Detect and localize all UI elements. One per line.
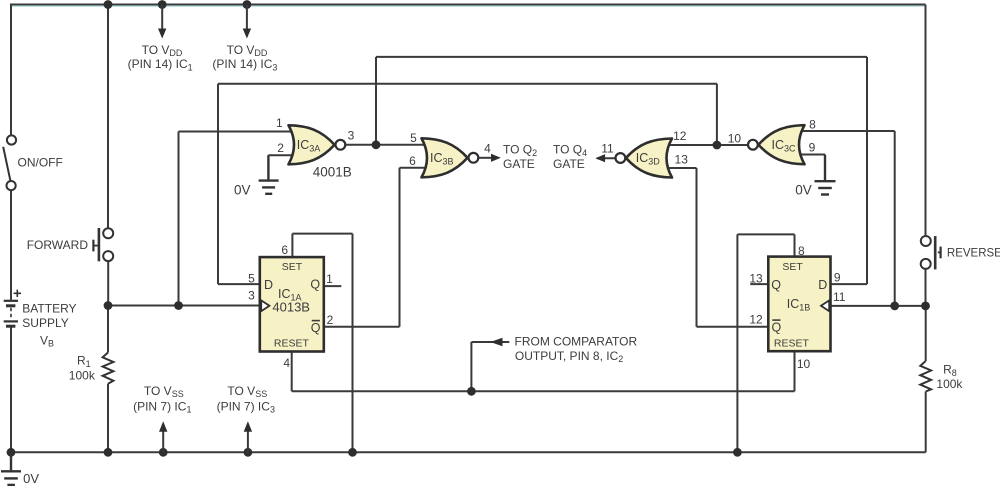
wire top rail cyan accent (11, 5, 925, 7)
junction top rail at VDD arrow 2 (243, 0, 252, 9)
svg-text:10: 10 (797, 357, 811, 371)
svg-text:4: 4 (283, 356, 290, 370)
svg-text:10: 10 (728, 131, 742, 145)
svg-text:GATE: GATE (553, 157, 585, 171)
wire IC3A output to IC3B pin 5 (346, 144, 430, 146)
svg-text:0V: 0V (23, 471, 39, 486)
junction 0V rail at VSS arrow 2 (244, 448, 253, 457)
wire IC1A SET horizontal (292, 233, 352, 235)
junction 0V rail at IC1B SET return (733, 448, 742, 457)
arrow TO VDD IC1 (158, 5, 166, 39)
wire node 10 to IC3C output (717, 144, 748, 146)
wire IC1B SET horizontal (737, 233, 794, 235)
wire IC1A SET down to 0V rail (352, 234, 354, 453)
svg-text:Q: Q (772, 321, 782, 335)
svg-text:4013B: 4013B (272, 299, 310, 314)
svg-text:GATE: GATE (503, 157, 535, 171)
wire comparator line (292, 390, 795, 392)
wire IC1A pin 5 (D) (218, 283, 260, 285)
svg-text:9: 9 (809, 141, 816, 155)
svg-text:RESET: RESET (774, 337, 810, 349)
NOR gate IC3B (422, 138, 479, 177)
NOR gate IC3C (mirrored) (748, 125, 805, 164)
flip-flop U IC1A (260, 257, 324, 351)
svg-text:13: 13 (749, 271, 763, 285)
wire node down to IC3D pin 12 (716, 84, 718, 145)
svg-text:5: 5 (248, 271, 255, 285)
svg-text:6: 6 (281, 243, 288, 257)
wire IC3C pin 8 input (798, 130, 895, 132)
resistor R8 (920, 361, 931, 392)
junction clock node at R1 (104, 301, 113, 310)
junction top rail at supply branch (104, 0, 113, 9)
clock triangle IC1A pin 3 (261, 300, 269, 311)
wire node to R8 top (925, 306, 927, 361)
arrow TO Q4 GATE (595, 154, 605, 162)
svg-text:ON/OFF: ON/OFF (18, 156, 63, 170)
ground bottom left 0V (1, 452, 21, 485)
wire IC1B RESET pin 10 vertical (794, 351, 796, 391)
svg-text:D: D (818, 278, 827, 292)
wire vertical down to IC1B pin 9 (866, 57, 868, 284)
wire IC3B pin 6 input (400, 167, 430, 169)
wire bottom 0V rail (7, 451, 926, 453)
svg-text:3: 3 (348, 129, 355, 143)
wire R1 bottom to 0V rail (107, 384, 109, 453)
junction IC1B clock at R8 (921, 302, 930, 311)
svg-text:3: 3 (248, 289, 255, 303)
wire vertical down to IC1A pin 5 (217, 84, 219, 284)
arrow TO VSS IC1 (159, 421, 167, 452)
svg-text:Q: Q (311, 321, 321, 335)
wire IC1A pin 1 Q stub (324, 285, 342, 287)
wire IC1B pin 12 Qbar (697, 326, 769, 328)
node 3 IC3A output (372, 140, 381, 149)
svg-text:Q: Q (310, 278, 320, 292)
arrow TO Q2 GATE (491, 154, 501, 162)
svg-text:9: 9 (834, 271, 841, 285)
wire comparator arrow vertical (470, 342, 472, 391)
svg-text:13: 13 (675, 153, 689, 167)
svg-text:TO Q2: TO Q2 (503, 143, 537, 158)
svg-text:(PIN 14) IC3: (PIN 14) IC3 (212, 57, 277, 72)
wire IC1B pin 9 (D) (831, 283, 868, 285)
wire D feedback horizontal (218, 83, 717, 85)
wire IC3D output pin 11 (597, 157, 615, 159)
junction top rail at VDD arrow 1 (158, 0, 167, 9)
wire IC1B clock pin 11 line (831, 305, 926, 307)
wire left rail top (10, 5, 12, 136)
svg-text:SET: SET (782, 261, 803, 273)
svg-text:Q: Q (771, 278, 781, 292)
svg-text:12: 12 (673, 129, 687, 143)
svg-text:0V: 0V (795, 183, 812, 198)
svg-text:FORWARD: FORWARD (27, 238, 89, 252)
svg-text:11: 11 (833, 290, 846, 304)
svg-text:0V: 0V (234, 182, 251, 197)
wire IC3D pin 13 vertical to IC1B Qbar (696, 168, 698, 327)
wire IC3B pin 6 vertical to IC1A Qbar (399, 168, 401, 327)
svg-text:8: 8 (798, 244, 805, 258)
wire supply branch from top rail to FORWARD (107, 5, 109, 229)
wire IC1A SET pin 6 vertical (291, 234, 293, 258)
svg-text:12: 12 (749, 312, 763, 326)
wire IC1A RESET pin 4 vertical (291, 352, 293, 392)
svg-text:100k: 100k (936, 377, 963, 391)
svg-text:REVERSE: REVERSE (947, 247, 1000, 259)
wire IC3B output pin 4 (479, 157, 494, 159)
NOR gate IC3D (mirrored) (616, 139, 673, 178)
junction clock line at feedback (174, 301, 183, 310)
wire clock line to IC1A pin 3 (108, 305, 260, 307)
svg-text:(PIN 7) IC3: (PIN 7) IC3 (217, 399, 275, 414)
junction 0V rail at VSS arrow 1 (159, 448, 168, 457)
svg-text:1: 1 (326, 272, 333, 286)
svg-text:(PIN 14) IC1: (PIN 14) IC1 (128, 57, 193, 72)
junction 0V rail left (7, 448, 16, 457)
switch FORWARD pushbutton (93, 228, 113, 261)
wire IC1B SET down to 0V rail (736, 234, 738, 452)
svg-text:100k: 100k (69, 368, 96, 382)
svg-text:8: 8 (809, 118, 816, 132)
svg-text:(PIN 7) IC1: (PIN 7) IC1 (133, 399, 191, 414)
svg-text:SUPPLY: SUPPLY (22, 316, 68, 330)
wire IC1B SET pin 8 vertical (794, 234, 796, 256)
wire top VDD rail (10, 4, 926, 6)
svg-text:SET: SET (282, 261, 303, 273)
junction 0V rail at R1 (104, 448, 113, 457)
svg-text:2: 2 (277, 141, 284, 155)
NOR gate IC3A (289, 125, 346, 164)
resistor R1 (103, 353, 114, 384)
wire feedback vertical to IC3A pin 1 (178, 132, 180, 306)
wire comparator arrow horizontal (471, 341, 509, 343)
junction 0V rail at IC1A SET return (348, 448, 357, 457)
svg-text:D: D (264, 278, 273, 292)
wire IC3D pin 12 to node (664, 144, 717, 146)
svg-text:FROM COMPARATOR: FROM COMPARATOR (515, 334, 638, 348)
svg-text:11: 11 (601, 141, 614, 155)
junction comparator line (467, 387, 476, 396)
wire right rail down to REVERSE switch (925, 5, 927, 237)
arrow TO VSS IC3 (244, 421, 252, 452)
svg-text:BATTERY: BATTERY (22, 301, 76, 315)
wire left rail bottom (battery to 0V rail) (10, 327, 12, 452)
wire top feedback horizontal to IC1B D (376, 56, 867, 58)
svg-text:5: 5 (410, 131, 417, 145)
switch ON/OFF (3, 135, 16, 190)
wire left rail middle (switch to battery) (10, 190, 12, 299)
battery supply VB (4, 290, 21, 327)
wire IC1B pin 13 Q stub (750, 283, 768, 285)
svg-text:4001B: 4001B (313, 165, 352, 180)
switch REVERSE pushbutton (921, 236, 941, 269)
wire node to R1 top (107, 306, 109, 353)
junction IC1B clock at pin 8 line (890, 302, 899, 311)
wire REVERSE switch to clock node (925, 269, 927, 306)
wire IC3A pin 2 input (268, 154, 298, 156)
svg-text:TO Q4: TO Q4 (553, 143, 587, 158)
wire IC1A pin 2 Qbar (324, 326, 400, 328)
wire IC3D pin 13 input (664, 167, 697, 169)
svg-text:4: 4 (484, 142, 491, 156)
node 10 IC3C output (713, 141, 722, 150)
clock triangle IC1B pin 11 (821, 300, 829, 311)
wire R8 bottom to 0V rail (925, 392, 927, 453)
wire FORWARD to clock node (107, 261, 109, 305)
svg-text:1: 1 (276, 116, 283, 130)
ground at IC3A pin 2 (259, 155, 279, 194)
svg-text:RESET: RESET (274, 337, 310, 349)
wire IC3C pin 9 input (798, 154, 825, 156)
svg-text:OUTPUT, PIN 8, IC2: OUTPUT, PIN 8, IC2 (515, 349, 623, 364)
svg-text:6: 6 (409, 154, 416, 168)
svg-text:2: 2 (327, 313, 334, 327)
wire IC3C pin 8 vertical to IC1B clock line (894, 131, 896, 306)
arrow FROM COMPARATOR (490, 338, 502, 346)
wire node 3 up to top feedback (375, 57, 377, 145)
ground at IC3C pin 9 (815, 155, 836, 195)
wire IC3A pin 1 input (179, 131, 299, 133)
flip-flop U IC1B (768, 257, 830, 352)
arrow TO VDD IC3 (243, 5, 251, 39)
